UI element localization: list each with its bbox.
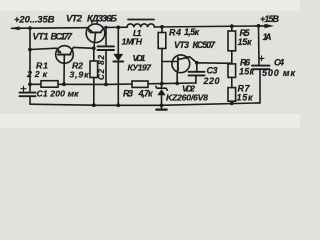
capacitor C4 [252,66,270,70]
svg-text:15к: 15к [239,66,254,76]
transistor VT3 [172,55,190,73]
node junction C2 top [104,26,107,29]
node junction VD2 bottom [160,103,164,107]
svg-text:VT1: VT1 [33,32,49,43]
resistor R4 [161,27,163,33]
svg-text:С3: С3 [207,66,218,76]
node junction VT2 base / R2 [92,46,96,50]
wire bottom rail [30,103,260,105]
wire VT1 emitter [30,48,57,49]
zener diode VD2 [161,84,163,89]
svg-text:1А: 1А [263,32,272,42]
node C1 plus [21,86,26,91]
svg-text:+20...35В: +20...35В [14,14,55,25]
wire node to divider [197,62,232,65]
inductor L1 [127,24,155,27]
wire VT2 base down [94,32,96,48]
svg-text:220: 220 [203,76,220,86]
node junction C2 bottom mid rail [104,83,108,87]
wire top rail VT2 to L1 [104,26,128,28]
svg-text:500 мк: 500 мк [262,68,295,78]
ground [161,105,163,109]
capacitor C2 [105,27,107,46]
transistor VT2 [86,24,105,43]
svg-text:4,7к: 4,7к [138,88,153,98]
node junction VT1 emitter tap [28,48,32,52]
svg-text:КУ197: КУ197 [128,62,153,72]
node junction top rail left branch [28,26,32,30]
svg-text:С2 82: С2 82 [97,54,106,80]
svg-text:КС507: КС507 [193,40,216,50]
svg-text:15к: 15к [238,37,252,47]
svg-text:KZ260/6V8: KZ260/6V8 [166,92,208,102]
node junction VD2 top mid rail [160,82,164,86]
node junction VT1 base mid rail [62,82,66,86]
node L1 core [128,19,154,21]
svg-text:15к: 15к [237,92,253,102]
resistor R2 [93,48,95,61]
resistor R7 [228,88,236,102]
node junction VD1 top [116,26,120,30]
capacitor C3 [196,63,198,72]
node junction R7 bottom [230,102,234,106]
svg-text:+15В: +15В [260,14,280,24]
node junction R5 top [230,24,234,28]
svg-text:22к: 22к [26,69,48,79]
node C4 plus [259,56,264,61]
wire VT3 base stub [162,61,177,63]
svg-text:КД336Б: КД336Б [87,14,117,25]
node input arrow [11,26,20,30]
svg-text:R4: R4 [169,28,181,38]
resistor R3 [132,81,148,87]
svg-text:VT3: VT3 [174,40,189,50]
resistor R6 [228,64,236,78]
svg-text:VD1: VD1 [133,53,146,63]
node junction output branch [257,24,261,28]
resistor R5 [231,26,233,31]
wire C1 to bottom rail [29,96,31,104]
wire VT1 collector to VT2 base [73,46,93,49]
node junction R2 bottom [92,103,96,107]
svg-text:1 МГН: 1 МГН [122,37,143,47]
svg-text:С4: С4 [274,58,284,68]
wire VT1 base down [63,55,65,85]
node junction VT3 collector mid rail [175,82,179,86]
resistor R1 [41,81,58,88]
transistor VT1 [56,46,74,64]
capacitor C1 [20,93,36,97]
wire left column upper [29,28,31,92]
svg-text:С1 200 мк: С1 200 мк [37,89,80,99]
svg-text:1,5к: 1,5к [184,27,199,37]
node junction VD1 bottom [116,103,120,107]
wire top rail L1 to output [155,26,266,27]
wire output branch down [258,26,261,66]
svg-text:BC177: BC177 [51,32,73,43]
node junction R4 top [160,25,164,29]
wire VT3 emitter to node [190,57,197,63]
node junction VT3 C3 R5 [195,61,199,65]
wire top rail input segment [12,27,88,30]
node output arrow [265,24,275,29]
node junction mid rail left [28,82,32,86]
svg-text:3,9к: 3,9к [70,69,90,79]
svg-text:VT2: VT2 [66,14,83,25]
diode VD1 [117,27,119,54]
wire mid rail [30,83,196,84]
svg-text:R3: R3 [123,88,133,98]
